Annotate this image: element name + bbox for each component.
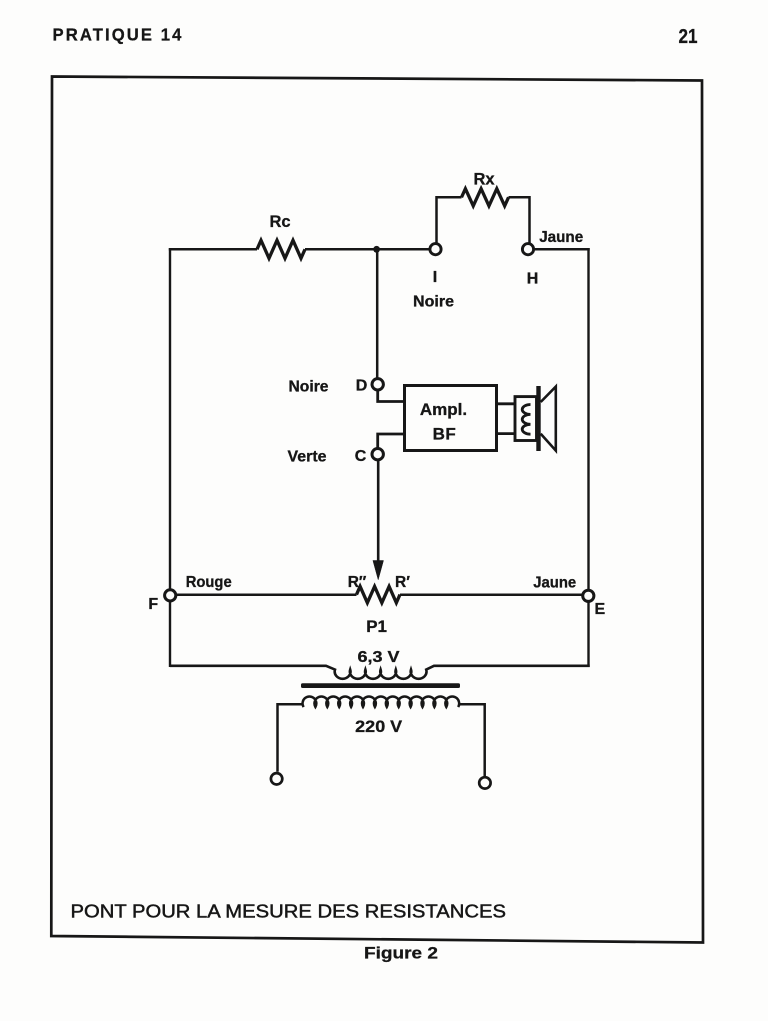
label D: [356, 377, 368, 394]
svg-text:C: C: [355, 448, 367, 465]
wire: left rail: [169, 248, 171, 667]
wire: Rx loop right leg: [509, 197, 530, 243]
svg-text:P1: P1: [366, 617, 387, 636]
wire: terminal D to amplifier input: [378, 391, 405, 402]
svg-text:Rouge: Rouge: [186, 574, 232, 591]
svg-text:R″: R″: [348, 574, 367, 591]
transformer T1 primary winding 220 V with leads: [278, 696, 485, 776]
svg-text:Jaune: Jaune: [533, 575, 576, 592]
label 6,3 V: [358, 649, 401, 666]
label Jaune (terminal E): [533, 575, 576, 592]
resistor Rc: [257, 240, 305, 258]
svg-text:Noire: Noire: [413, 293, 454, 310]
svg-text:PONT POUR LA MESURE DES RESIST: PONT POUR LA MESURE DES RESISTANCES: [71, 901, 507, 921]
page number 21: [679, 26, 698, 48]
svg-text:R′: R′: [395, 574, 410, 591]
svg-text:Noire: Noire: [289, 379, 329, 396]
svg-text:220 V: 220 V: [355, 718, 402, 736]
terminal I: [430, 244, 441, 255]
label 220 V: [355, 718, 402, 736]
transformer T1 secondary winding 6,3 V with bottom bus: [170, 666, 590, 679]
label C: [355, 448, 367, 465]
svg-text:Verte: Verte: [288, 448, 327, 465]
svg-text:Ampl.: Ampl.: [420, 400, 467, 419]
terminal F: [165, 590, 176, 601]
page header "PRATIQUE 14": [53, 24, 184, 44]
svg-text:BF: BF: [433, 424, 457, 443]
label Noire (terminal D): [289, 379, 329, 396]
wire: H to right rail: [534, 248, 590, 251]
transformer T1 core: [301, 683, 460, 688]
svg-text:Rx: Rx: [473, 170, 495, 188]
svg-text:21: 21: [679, 26, 698, 48]
wire: amplifier to terminal C: [378, 434, 405, 448]
resistor Rx: [462, 189, 509, 206]
svg-text:Jaune: Jaune: [539, 229, 583, 246]
svg-text:PRATIQUE 14: PRATIQUE 14: [53, 24, 184, 44]
terminal E: [583, 590, 594, 601]
wire: F to E through potentiometer: [176, 593, 583, 596]
terminal H: [522, 244, 533, 255]
wire: arrow from C to potentiometer wiper: [373, 461, 384, 580]
svg-text:F: F: [148, 596, 158, 613]
junction node on top bus: [373, 246, 380, 253]
mains terminal left: [271, 773, 282, 784]
figure caption "Figure 2": [364, 944, 438, 963]
label Noire (terminal I): [413, 293, 454, 310]
speaker LS1 wires from amplifier: [497, 404, 516, 434]
label Verte (terminal C): [288, 448, 327, 465]
label E: [594, 601, 605, 618]
wire: right rail: [587, 248, 589, 667]
terminal C: [372, 449, 383, 460]
svg-text:H: H: [527, 271, 539, 288]
speaker LS1 driver box: [515, 397, 537, 441]
speaker LS1 cone: [541, 387, 556, 451]
wire: top horizontal bus from left rail to terminal I: [169, 248, 431, 251]
label R': [395, 574, 410, 591]
svg-text:I: I: [433, 269, 437, 286]
label F: [148, 596, 158, 613]
label R'': [348, 574, 367, 591]
svg-text:6,3 V: 6,3 V: [358, 649, 401, 666]
figure title: [71, 901, 507, 921]
wire: Rx loop left leg: [437, 197, 462, 243]
label I: [433, 269, 437, 286]
label Jaune (terminal H): [539, 229, 583, 246]
svg-text:Figure 2: Figure 2: [364, 944, 438, 963]
svg-text:D: D: [356, 377, 368, 394]
figure border frame: [51, 77, 703, 943]
potentiometer P1: [357, 586, 400, 602]
amplifier U1 box Ampl. BF: [405, 386, 497, 451]
terminal D: [372, 379, 383, 390]
label H: [527, 271, 539, 288]
svg-text:Rc: Rc: [269, 213, 290, 231]
speaker LS1 voice coil: [522, 405, 530, 435]
svg-text:E: E: [594, 601, 605, 618]
label Rc: [269, 213, 290, 231]
wire: junction down to terminal D: [376, 249, 379, 378]
label Rx: [473, 170, 495, 188]
mains terminal right: [479, 777, 490, 788]
label Rouge (terminal F): [186, 574, 232, 591]
speaker LS1 diaphragm bar: [536, 386, 540, 451]
label P1: [366, 617, 387, 636]
